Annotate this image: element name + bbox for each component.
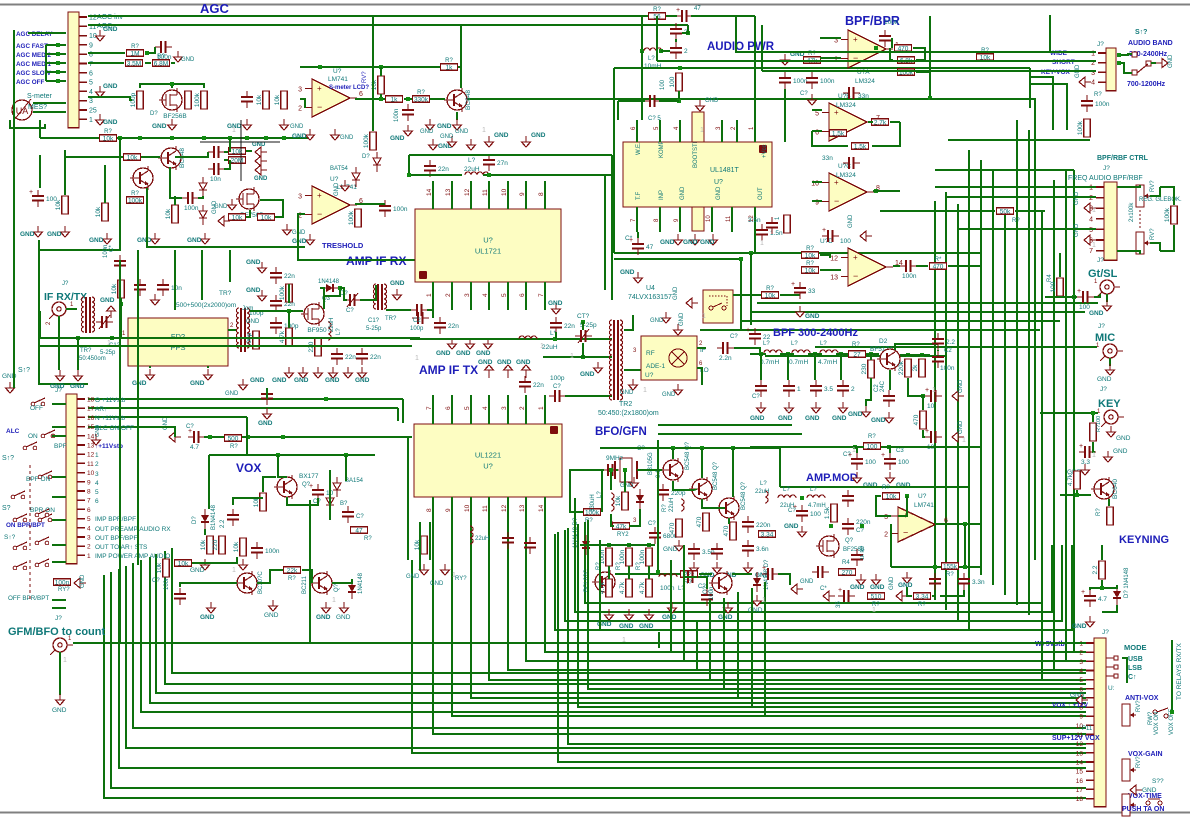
svg-text:10: 10 (87, 470, 95, 477)
potentiometer RV? 1 (1136, 185, 1150, 207)
wire bfo q2 c (701, 448, 703, 478)
junction (407, 173, 411, 177)
svg-text:10k: 10k (615, 495, 622, 506)
wire inv in (300, 99, 305, 108)
svg-text:C*: C* (625, 235, 633, 242)
svg-text:AGC inv: AGC inv (97, 14, 124, 21)
wire bfo in loop (570, 470, 600, 512)
svg-text:4.7k: 4.7k (279, 330, 286, 343)
svg-text:220k: 220k (898, 360, 905, 375)
svg-text:AUDIO BAND: AUDIO BAND (1128, 40, 1173, 47)
svg-text:10k: 10k (233, 541, 240, 552)
switch alc (23, 442, 37, 450)
transistor bfo1 (660, 458, 683, 482)
wire to relays (1171, 640, 1173, 712)
svg-text:R?: R? (1094, 92, 1102, 98)
svg-text:C*: C* (820, 586, 827, 592)
svg-text:↑+11Vstb: ↑+11Vstb (95, 443, 123, 450)
svg-text:S?: S? (2, 505, 11, 512)
svg-text:6: 6 (89, 70, 93, 77)
wire meter gnd (10, 120, 45, 128)
svg-text:O +11Vstb: O +11Vstb (95, 397, 126, 404)
svg-text:AR↑: AR↑ (95, 406, 107, 413)
bus wire net3 (508, 497, 1086, 670)
wire cap out (224, 151, 228, 153)
capacitor trim in (96, 316, 113, 328)
capacitor C2 100p (411, 304, 428, 316)
svg-text:3: 3 (298, 194, 302, 201)
svg-text:TR?: TR? (385, 316, 397, 322)
svg-text:100n: 100n (394, 109, 400, 122)
svg-text:GND: GND (620, 390, 634, 396)
capacitor fd a (134, 279, 146, 296)
wire u1721 net175b (483, 174, 612, 176)
svg-text:4.7k: 4.7k (1067, 473, 1074, 486)
svg-text:3: 3 (501, 406, 508, 410)
junction (759, 352, 763, 356)
svg-text:R*: R* (935, 257, 942, 263)
junction loop (678, 66, 682, 70)
junction (145, 51, 149, 55)
svg-text:GND: GND (679, 312, 685, 326)
svg-text:13: 13 (445, 188, 452, 196)
svg-text:R?: R? (1012, 218, 1020, 224)
svg-text:3.5n: 3.5n (748, 217, 761, 224)
ground mod g3 (823, 591, 835, 601)
junction (581, 355, 585, 359)
ground up arrow (504, 365, 513, 378)
wire agc mode (46, 44, 66, 46)
svg-text:24C: 24C (880, 380, 886, 392)
diode 1N4148 bfo (753, 572, 761, 592)
svg-text:D?: D? (362, 154, 370, 160)
junction (208, 435, 212, 439)
svg-text:5: 5 (501, 293, 508, 297)
svg-text:15: 15 (87, 424, 95, 431)
wire 10k up (624, 470, 626, 492)
svg-text:5: 5 (464, 406, 471, 410)
svg-text:+: + (676, 7, 680, 14)
svg-text:GND: GND (650, 318, 664, 324)
ground ctrl2 (1084, 235, 1096, 245)
resistor R? (413, 90, 430, 104)
ground tx up (552, 303, 561, 314)
wire col pin4 (1054, 669, 1086, 671)
svg-text:10n: 10n (171, 285, 182, 292)
wire to res10k (175, 152, 208, 157)
capacitor C4 pwr (670, 23, 688, 40)
wire mod out (935, 523, 981, 525)
wire mid0 (757, 302, 1098, 304)
svg-text:35: 35 (836, 601, 842, 608)
svg-text:+: + (309, 483, 313, 490)
resistor R? (100, 129, 117, 143)
svg-text:J?: J? (55, 387, 62, 394)
svg-text:22n: 22n (533, 382, 544, 389)
ground s1 (258, 262, 267, 273)
resistor 100n bfo c (639, 548, 652, 566)
resistor extra (830, 130, 847, 138)
transistor bfo5 (709, 571, 732, 595)
svg-text:10k: 10k (103, 136, 114, 143)
transistor Q? BF517A (877, 347, 900, 371)
junction (318, 65, 322, 69)
svg-text:AMP.MOD: AMP.MOD (806, 472, 858, 484)
svg-text:R?: R? (981, 48, 989, 54)
svg-text:U?: U? (483, 462, 493, 471)
svg-text:+: + (853, 35, 858, 44)
trimmer arrow3 (578, 329, 589, 343)
svg-text:5: 5 (1089, 227, 1093, 234)
svg-text:N +11Vstb: N +11Vstb (95, 415, 125, 422)
svg-text:17: 17 (87, 406, 95, 413)
wire key base (1077, 490, 1091, 495)
wire mic net (815, 346, 1097, 348)
svg-text:J?: J? (55, 615, 62, 622)
ground c47b (634, 272, 643, 283)
resistor 100k out (363, 132, 376, 150)
inductor 22uH bfo (681, 499, 684, 511)
connector J? left 18pin (66, 394, 95, 564)
capacitor 100n right (1081, 95, 1110, 112)
wire pot1 top (1117, 185, 1140, 187)
svg-text:33: 33 (808, 288, 816, 295)
svg-text:IF RX/TX: IF RX/TX (44, 291, 87, 303)
junction (1075, 493, 1079, 497)
svg-text:GND: GND (663, 546, 678, 553)
ground btx1 (420, 564, 429, 575)
resistor 220 vox (212, 536, 225, 554)
svg-text:GND: GND (778, 415, 793, 422)
svg-text:10: 10 (706, 215, 712, 222)
capacitor 22n c (356, 348, 381, 365)
capacitor fd b (157, 279, 182, 296)
svg-text:3: 3 (87, 535, 91, 542)
svg-text:W.E.: W.E. (636, 142, 642, 155)
svg-text:R?: R? (766, 286, 774, 292)
wire ul1481 top pin 4 (679, 120, 681, 142)
ground u1721 a (429, 139, 438, 150)
svg-text:INP: INP (659, 190, 665, 200)
svg-text:470: 470 (933, 264, 944, 271)
wire fet top (140, 84, 204, 88)
svg-text:AGC OFF: AGC OFF (16, 79, 44, 86)
capacitor 100n voxl (174, 588, 186, 605)
svg-text:GND: GND (103, 119, 118, 126)
svg-text:J?: J? (1103, 165, 1110, 172)
ground thr (306, 234, 315, 245)
wire gnd drop2 (77, 338, 79, 370)
svg-text:GND: GND (334, 182, 340, 196)
wire U1721 bottom pin 4 (488, 282, 490, 310)
capacitor 220p (657, 484, 686, 501)
svg-text:1: 1 (452, 572, 456, 579)
svg-text:D? 1N4148: D? 1N4148 (1124, 567, 1130, 598)
wire mid3 (700, 329, 1040, 331)
wire cap100 top (39, 155, 41, 188)
wire ctrl p5 (958, 228, 1096, 230)
wire agc mode bus (45, 45, 47, 81)
svg-text:100: 100 (810, 511, 821, 518)
wire alc3 (407, 437, 409, 560)
junction (487, 173, 491, 177)
wire vcc drop (754, 16, 756, 120)
resistor 155k mod (942, 563, 959, 571)
svg-text:GND: GND (958, 379, 964, 393)
svg-text:R?: R? (918, 602, 926, 608)
svg-text:17: 17 (1076, 787, 1084, 794)
wire col pin2 (1074, 651, 1086, 653)
capacitor 100n bfo mid (682, 571, 699, 583)
svg-text:1: 1 (89, 117, 93, 124)
wire row 138 (40, 137, 308, 139)
svg-text:GND: GND (673, 286, 679, 300)
capacitor 10 pre2 (925, 428, 942, 451)
svg-text:C?: C? (637, 446, 645, 452)
svg-text:6: 6 (87, 507, 91, 514)
svg-text:BA154: BA154 (345, 478, 364, 484)
svg-text:C?: C? (856, 528, 864, 534)
svg-text:J?: J? (62, 281, 69, 287)
svg-text:KEY: KEY (1098, 398, 1121, 410)
svg-text:R?: R? (636, 562, 642, 570)
bus vertical net1074 (1073, 170, 1075, 652)
wire pin7 (88, 62, 124, 64)
wire r join3 (171, 62, 175, 64)
junction (276, 453, 280, 457)
svg-text:10k: 10k (886, 494, 897, 501)
svg-text:C*: C* (109, 245, 115, 252)
svg-text:100n: 100n (884, 19, 899, 26)
svg-text:C?: C? (152, 578, 160, 584)
svg-text:1: 1 (1079, 641, 1083, 648)
wire r100 to cap (1060, 296, 1074, 298)
wire caps join (675, 39, 677, 42)
wire f c2 (787, 354, 789, 380)
diode vox1 (201, 509, 209, 529)
wire out b (868, 121, 873, 123)
wire to col (930, 98, 1035, 100)
junction (928, 96, 932, 100)
wire key in (1060, 494, 1077, 496)
wire switch link (52, 426, 66, 428)
svg-text:10mH: 10mH (644, 63, 662, 70)
svg-text:5: 5 (815, 111, 819, 118)
switch on (41, 430, 55, 438)
junction (324, 397, 328, 401)
diode BA154 vox (333, 477, 341, 497)
svg-text:27n: 27n (497, 160, 508, 167)
svg-text:OFF: OFF (30, 405, 43, 412)
resistor 10k voxb (175, 560, 192, 568)
wire to tr2 (360, 285, 376, 300)
IC U? UL1221 (414, 424, 562, 497)
svg-text:GND: GND (436, 350, 451, 357)
ground pwr r (781, 54, 790, 65)
switch push (1146, 799, 1162, 805)
transistor Q? vox (274, 475, 297, 499)
wire r56 in (642, 15, 648, 17)
wire f1w (780, 353, 794, 355)
resistor 100n bfo a (599, 548, 612, 566)
ground bf950 row (344, 367, 353, 378)
ground 3 (103, 233, 112, 244)
connector J? GFM/BFO (50, 638, 73, 655)
wire pin17 drop (397, 408, 399, 421)
wire in+ (820, 37, 841, 39)
wire long 338 (40, 337, 420, 339)
svg-text:GND: GND (1074, 191, 1080, 205)
svg-text:10n: 10n (210, 176, 221, 183)
ground mic (1106, 364, 1115, 375)
ground bfo row3 (645, 609, 654, 620)
transformer TR2 (610, 320, 623, 400)
svg-text:22k: 22k (287, 568, 298, 575)
svg-text:C?: C? (730, 334, 738, 340)
svg-text:2: 2 (851, 386, 855, 393)
svg-text:GND: GND (80, 574, 86, 588)
svg-text:1: 1 (1092, 452, 1096, 459)
capacitor C2 (208, 163, 225, 183)
wire right h170 (935, 169, 1074, 171)
wire ul1481 bot pin 7 (636, 207, 638, 232)
resistor R? (127, 44, 144, 58)
svg-text:GND: GND (1097, 376, 1112, 383)
resistor 100k thr (348, 209, 361, 227)
svg-text:100k: 100k (128, 198, 143, 205)
wire l10 out (661, 50, 670, 52)
svg-text:1.5k: 1.5k (854, 144, 867, 151)
junction (749, 251, 753, 255)
svg-text:GND: GND (200, 614, 215, 621)
wire xtal l2 (600, 469, 604, 471)
ground voxl1 (207, 602, 216, 613)
resistor 10k below (414, 536, 427, 554)
wire pwr loop right (1029, 68, 1031, 108)
capacitor mod l (812, 566, 829, 578)
svg-text:+: + (317, 191, 322, 200)
bus wire netC1 (172, 548, 1086, 673)
svg-text:RY?: RY? (58, 587, 70, 593)
svg-text:220: 220 (212, 539, 219, 550)
svg-text:GND: GND (89, 237, 104, 244)
svg-text:GND: GND (683, 239, 698, 246)
svg-text:11: 11 (482, 505, 489, 512)
svg-text:4: 4 (89, 89, 93, 96)
svg-text:4.7k: 4.7k (619, 581, 626, 594)
svg-text:LM741: LM741 (914, 502, 934, 509)
wire wide vert (736, 16, 1050, 52)
svg-text:RY2: RY2 (617, 532, 629, 538)
wire AGC net (88, 24, 688, 26)
wire res loop (246, 150, 252, 152)
switch vox on (1153, 708, 1168, 718)
svg-text:GND: GND (1070, 692, 1085, 699)
svg-text:R?: R? (104, 129, 112, 135)
capacitor 22n s2 (270, 295, 295, 312)
svg-text:+: + (822, 227, 826, 234)
svg-text:7: 7 (426, 406, 433, 410)
switch s3 (11, 491, 25, 499)
wire u1721 net175a (409, 174, 462, 176)
wire mod f3 (940, 590, 964, 596)
ground mod c (798, 526, 807, 537)
junction (869, 352, 873, 356)
svg-text:L?: L? (763, 341, 770, 347)
op-amp U?A LM324 (834, 30, 899, 68)
svg-text:1: 1 (570, 353, 574, 360)
svg-text:2: 2 (95, 461, 99, 468)
svg-text:Gt/SL: Gt/SL (1088, 268, 1118, 280)
wire fet drain (171, 84, 173, 88)
svg-text:GND: GND (325, 377, 340, 384)
capacitor 4.7 alc (188, 428, 205, 451)
svg-text:+: + (29, 189, 33, 196)
ground 6 (228, 199, 237, 210)
svg-text:GND: GND (440, 134, 454, 140)
resistor 470 pre (913, 411, 926, 429)
resistor 10k (229, 148, 246, 156)
inductor 0.7mH b (792, 350, 810, 353)
wire ul1481 top pin 5 (659, 120, 661, 142)
svg-text:GND: GND (680, 186, 686, 200)
wire pin18 rail (88, 398, 403, 400)
ground fd4 (204, 369, 213, 380)
svg-text:BPF: BPF (54, 443, 67, 450)
diode BAT54 b (352, 167, 360, 187)
svg-text:220n: 220n (756, 522, 771, 529)
svg-text:OUT BPF/BPF: OUT BPF/BPF (95, 535, 138, 542)
junction (553, 337, 557, 341)
ground u1721 c (485, 136, 494, 147)
svg-text:GND: GND (316, 614, 331, 621)
svg-text:GND: GND (272, 377, 287, 384)
resistor 100n gfm (54, 579, 71, 587)
diode B? vox (326, 492, 334, 512)
switch s7 (35, 537, 49, 545)
resistor 100k bpf (898, 69, 915, 77)
svg-text:+: + (317, 84, 322, 93)
wire U1721 bottom pin 2 (451, 282, 453, 310)
resistor 10k (274, 91, 287, 109)
potentiometer RV? 2 (1136, 232, 1150, 254)
wire ul1481 bot pin 12 (754, 207, 756, 232)
svg-text:S↑?: S↑? (4, 534, 16, 541)
junction (623, 468, 627, 472)
svg-text:−: − (853, 271, 858, 281)
wire pot wiper (1150, 187, 1160, 196)
svg-text:100: 100 (840, 238, 851, 245)
svg-text:2k: 2k (912, 364, 919, 372)
wire col 202 (201, 250, 203, 300)
svg-text:KOMP: KOMP (659, 140, 665, 158)
svg-text:GND: GND (662, 392, 676, 398)
resistor 270 mod (839, 569, 856, 577)
svg-text:GND: GND (832, 415, 847, 422)
svg-text:C?: C? (186, 424, 194, 430)
svg-text:GND: GND (187, 237, 202, 244)
wire agc mode (46, 80, 66, 82)
ground pwr row (691, 234, 700, 245)
svg-text:6: 6 (95, 498, 99, 505)
svg-text:1: 1 (643, 387, 647, 394)
ground bf950 row (314, 367, 323, 378)
ground gl3 (255, 165, 267, 175)
svg-text:GND: GND (132, 380, 147, 387)
svg-text:5: 5 (89, 80, 93, 87)
bus wire netC9 (111, 572, 1086, 788)
transistor BC848 (158, 146, 186, 170)
